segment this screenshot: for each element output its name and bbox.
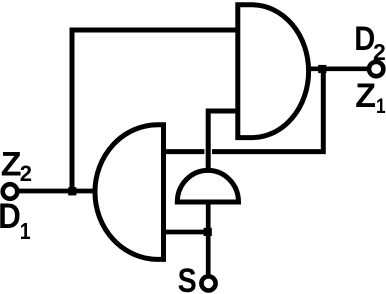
- svg-text:Z: Z: [355, 77, 376, 115]
- svg-text:1: 1: [20, 219, 31, 245]
- svg-text:2: 2: [373, 39, 386, 65]
- svg-text:2: 2: [20, 161, 32, 186]
- svg-text:D: D: [0, 198, 21, 237]
- svg-text:1: 1: [376, 94, 386, 118]
- svg-text:Z: Z: [1, 145, 22, 183]
- svg-text:S: S: [178, 262, 197, 294]
